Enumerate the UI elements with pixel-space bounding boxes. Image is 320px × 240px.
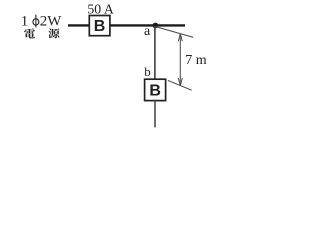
wire from breaker B1 to line end [110, 24, 185, 26]
vertical wire node a to breaker B2 [154, 26, 156, 80]
wire below breaker B2 [154, 101, 156, 128]
breaker B2 box [145, 79, 166, 100]
svg-text:12W: 12W [21, 13, 63, 29]
svg-text:7 m: 7 m [185, 53, 207, 68]
node a junction dot [153, 23, 159, 29]
wire from source to breaker B1 [68, 24, 89, 26]
arrowhead down [178, 78, 182, 86]
svg-text:a: a [144, 24, 151, 39]
svg-text:B: B [149, 82, 161, 99]
arrowhead up [178, 34, 182, 42]
breaker B1 box [89, 16, 110, 36]
source label kanji 電 [24, 28, 35, 38]
dimension extension line near node b [168, 80, 192, 90]
svg-text:50 A: 50 A [87, 2, 113, 17]
phi symbol of 1phi2W [33, 19, 39, 25]
svg-text:b: b [144, 64, 151, 79]
source label kanji 源 [48, 28, 59, 38]
dimension arrow line [179, 34, 181, 86]
svg-text:B: B [94, 18, 106, 35]
dimension extension line from node a [156, 27, 193, 38]
